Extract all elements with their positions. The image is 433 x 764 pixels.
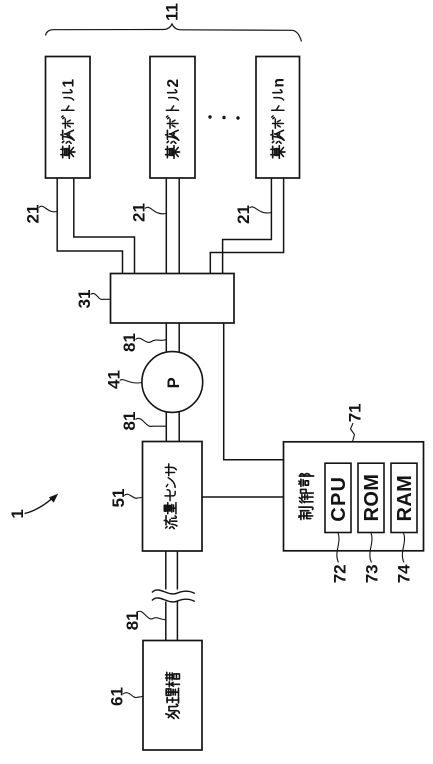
leader for 41 xyxy=(120,380,142,383)
pipe 21 from bottle 2 (double line straight) xyxy=(166,178,179,274)
svg-text:n: n xyxy=(270,78,287,87)
tank box 処理槽 61 xyxy=(143,641,202,751)
svg-text:2: 2 xyxy=(165,79,182,88)
label 81 (middle) xyxy=(120,412,139,431)
svg-text:81: 81 xyxy=(120,333,139,352)
svg-text:ROM: ROM xyxy=(361,474,383,522)
arrow for label 1 xyxy=(25,494,59,514)
label 31 xyxy=(75,289,94,308)
leader for 61 xyxy=(123,693,143,698)
leader for 21 left xyxy=(39,206,57,212)
pipe 21 from bottle 1 (double line elbow) xyxy=(57,178,134,274)
pipe 21 from bottle n (double line elbow) xyxy=(210,178,283,274)
RAM box 74 xyxy=(391,463,417,532)
ellipsis dots between bottle 2 and n xyxy=(208,115,239,119)
label 21 (right) xyxy=(234,205,253,224)
brace 11 over bottle group xyxy=(46,24,302,42)
label 11 xyxy=(162,3,181,21)
label 61 xyxy=(108,687,127,706)
svg-text:81: 81 xyxy=(120,412,139,431)
svg-text:CPU: CPU xyxy=(328,476,350,522)
manifold box 31 xyxy=(111,274,235,324)
label 51 xyxy=(109,489,128,508)
svg-text:61: 61 xyxy=(108,687,127,706)
leader for 71 xyxy=(351,423,355,442)
ROM box 73 xyxy=(358,463,384,532)
svg-text:11: 11 xyxy=(162,3,181,21)
flow sensor box 流量センサ 51 xyxy=(143,442,203,552)
leader for 73 xyxy=(370,533,372,563)
bottle box 薬液ボトルn xyxy=(256,57,300,179)
label 72 xyxy=(331,564,350,583)
label 41 xyxy=(104,370,123,389)
CPU box 72 xyxy=(325,463,351,532)
svg-text:RAM: RAM xyxy=(394,475,416,522)
label 71 xyxy=(346,403,365,422)
leader for 21 right xyxy=(250,207,272,213)
leader for 21 middle xyxy=(145,207,166,214)
label 81 (upper) xyxy=(120,333,139,352)
pipe 81 from pump to flow sensor xyxy=(166,408,179,442)
svg-text:P: P xyxy=(165,377,183,388)
svg-text:21: 21 xyxy=(130,203,149,222)
svg-text:1: 1 xyxy=(60,79,77,88)
wire from flow sensor to control unit xyxy=(202,496,283,498)
label 1 (figure reference) xyxy=(8,509,27,518)
bottle box 薬液ボトル1 xyxy=(46,57,91,179)
leader for 81 middle xyxy=(135,418,166,426)
pipe break squiggle upper xyxy=(152,590,195,594)
svg-text:51: 51 xyxy=(109,489,128,508)
leader for 81 lower xyxy=(136,611,165,619)
svg-text:81: 81 xyxy=(123,611,142,630)
control unit box 制御部 71 xyxy=(284,442,424,551)
label 73 xyxy=(363,564,382,583)
label 81 (lower) xyxy=(123,611,142,630)
label 21 (left) xyxy=(24,205,43,224)
leader for 74 xyxy=(402,533,404,563)
wire from 31 to control unit xyxy=(224,323,284,460)
label 21 (middle) xyxy=(130,203,149,222)
svg-text:31: 31 xyxy=(75,289,94,308)
svg-text:74: 74 xyxy=(395,564,414,583)
svg-text:72: 72 xyxy=(331,564,350,583)
svg-text:1: 1 xyxy=(8,509,27,518)
leader for 31 xyxy=(91,293,111,299)
pump circle P 41 xyxy=(142,352,203,413)
leader for 72 xyxy=(337,533,339,563)
leader for 51 xyxy=(124,494,142,498)
pipe break squiggle lower xyxy=(152,598,195,602)
label 74 xyxy=(395,564,414,583)
bottle box 薬液ボトル2 xyxy=(150,57,195,179)
pipe 81 from 31 to pump xyxy=(166,323,179,356)
svg-text:73: 73 xyxy=(363,564,382,583)
leader for 81 upper xyxy=(135,338,166,342)
pipe 81 from flow sensor to tank (with break) xyxy=(166,551,178,641)
svg-text:71: 71 xyxy=(346,403,365,422)
